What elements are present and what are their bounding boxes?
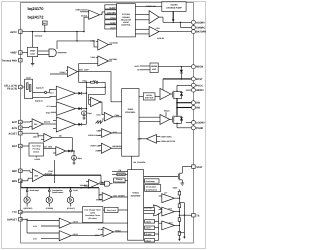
ramp waveform symbol <box>96 121 103 124</box>
current source termination qualification branch <box>46 188 64 210</box>
wire CELL to MUX <box>22 86 24 88</box>
svg-text:(10h): (10h) <box>90 211 95 214</box>
wire discharge box stub <box>144 180 145 182</box>
svg-text:SYSTEM: SYSTEM <box>122 13 130 16</box>
block VREF LDO <box>28 47 38 56</box>
svg-text:ICT,: ICT, <box>47 105 51 108</box>
clamp 24V <box>43 21 48 32</box>
svg-text:VREF: VREF <box>173 187 179 190</box>
block termination qualification <box>145 185 161 192</box>
svg-text:ACOV: ACOV <box>145 220 151 223</box>
comparator LTF <box>159 191 180 202</box>
wire BTST rail <box>163 78 191 89</box>
block level shifter <box>143 93 155 100</box>
wire TTC to timer <box>22 211 82 213</box>
comparator AC overvoltage 1.6V <box>33 218 128 228</box>
svg-text:CONTROL: CONTROL <box>121 24 131 27</box>
svg-text:CONTROL: CONTROL <box>125 111 136 114</box>
svg-text:Discharge: Discharge <box>146 180 155 183</box>
amp EAI buffer <box>89 94 105 114</box>
svg-text:SRP: SRP <box>12 170 17 173</box>
resistor chain R4 <box>178 232 180 239</box>
svg-text:EAI: EAI <box>93 79 97 82</box>
pin Thermal PAD <box>1 58 22 62</box>
wire SRN bus <box>21 181 102 200</box>
label VREF pullup <box>173 187 180 192</box>
svg-text:I(TERM): I(TERM) <box>46 207 54 210</box>
wire STAT gate <box>144 176 177 178</box>
svg-text:ACOV: ACOV <box>73 220 79 223</box>
ground under VREF LDO <box>31 57 35 66</box>
block system power selector logic control <box>116 4 135 37</box>
comparator HTF <box>159 207 180 216</box>
pin ACP <box>12 120 22 124</box>
svg-text:SLEEP: SLEEP <box>109 6 116 9</box>
block discharge <box>145 179 159 183</box>
svg-text:LEVEL: LEVEL <box>146 94 153 97</box>
svg-text:LOWV: LOWV <box>35 158 41 161</box>
pin LODRV <box>191 121 205 125</box>
block fast-chg pre-chg detect <box>29 143 44 156</box>
pin SW a <box>191 101 200 105</box>
svg-text:bq24170: bq24170 <box>36 87 44 90</box>
svg-text:POWER: POWER <box>122 16 130 19</box>
svg-text:STATE: STATE <box>132 192 139 195</box>
svg-text:30µA: 30µA <box>87 112 92 115</box>
svg-text:6: 6 <box>20 127 21 130</box>
compensation rail FBO/EAI <box>82 79 105 83</box>
gate SUSPEND or <box>144 205 167 216</box>
signal box ACOV top <box>105 20 117 25</box>
signal box UVLO <box>145 239 155 243</box>
block cell MUX <box>25 77 33 99</box>
IC boundary <box>21 3 194 244</box>
svg-text:SW: SW <box>196 102 201 105</box>
pin OVPSET <box>7 218 22 222</box>
wire VREF pin to LDO <box>22 52 27 54</box>
diode termination feed <box>66 150 74 153</box>
svg-text:GND: GND <box>46 112 51 115</box>
svg-text:ACN: ACN <box>156 27 161 30</box>
capacitor comp series <box>94 81 99 84</box>
svg-text:ACN: ACN <box>12 127 18 130</box>
label LOWV <box>35 156 41 161</box>
svg-text:TS: TS <box>196 215 200 218</box>
wire CMSRC <box>180 22 192 28</box>
svg-text:Fault: Fault <box>73 189 78 192</box>
resistor chain R3 <box>178 218 180 232</box>
svg-text:Detect: Detect <box>33 151 39 154</box>
svg-text:BAT_REG: BAT_REG <box>44 146 53 149</box>
wire ICHG rail <box>44 160 105 183</box>
svg-text:VREF: VREF <box>30 50 36 53</box>
svg-text:Thermal PAD: Thermal PAD <box>1 59 17 62</box>
svg-text:SELECTOR: SELECTOR <box>121 18 132 21</box>
svg-text:REGN: REGN <box>151 65 158 68</box>
block PWM CONTROL <box>122 89 139 157</box>
wire TS ladder right <box>179 203 185 239</box>
svg-text:ACN-SRN: ACN-SRN <box>107 11 116 14</box>
comparator DISCHG <box>80 180 104 189</box>
svg-text:CMSRC: CMSRC <box>196 27 205 30</box>
svg-text:SW: SW <box>196 107 201 110</box>
block ACDRV charge pump <box>162 2 186 12</box>
wire BAT to detect block <box>22 145 29 147</box>
diode current loop 1 <box>75 107 86 110</box>
svg-text:Pre-Chg: Pre-Chg <box>33 148 41 151</box>
wire charge pump input <box>135 6 161 8</box>
svg-text:STAT: STAT <box>196 166 203 169</box>
svg-text:5: 5 <box>20 121 21 124</box>
svg-text:2: 2 <box>20 51 21 54</box>
pin AVCC <box>10 30 22 34</box>
wire charge pump output arrow <box>172 11 175 23</box>
wire LODRV stub <box>186 122 192 124</box>
svg-text:EN_CHARGE: EN_CHARGE <box>134 161 147 164</box>
svg-text:SLEEP: SLEEP <box>145 233 152 236</box>
svg-text:VSRN: VSRN <box>96 199 102 202</box>
signal box ACUV top <box>105 25 117 30</box>
wire EN_CHARGE <box>132 156 147 169</box>
svg-text:BTST: BTST <box>196 78 203 81</box>
gate charge termination AND <box>100 181 113 186</box>
pin PVCC <box>191 83 203 87</box>
svg-text:ACSET: ACSET <box>9 132 18 135</box>
driver high side <box>139 89 172 100</box>
svg-text:HIDRV: HIDRV <box>196 89 204 92</box>
block charge termination <box>114 178 126 184</box>
REGN LDO inputs <box>134 65 150 72</box>
svg-text:BATRMV: BATRMV <box>109 58 118 61</box>
svg-text:BAT_OVP: BAT_OVP <box>79 68 89 71</box>
pin REGN <box>191 65 203 69</box>
pin HIDRV <box>191 88 204 92</box>
pin SW b <box>191 106 200 110</box>
comparator AC undervoltage 2.5V <box>33 231 100 241</box>
svg-text:12: 12 <box>20 218 22 221</box>
wire timer to time fault to state machine <box>103 209 128 211</box>
svg-text:ACP: ACP <box>12 121 18 124</box>
svg-text:LDO: LDO <box>152 68 157 71</box>
block charge timers <box>83 207 103 223</box>
driver BATDRV <box>135 27 191 41</box>
block REGN LDO <box>150 63 158 73</box>
diode REGN to BTST <box>180 67 183 79</box>
block time fault <box>105 207 119 212</box>
svg-text:LOGIC: LOGIC <box>123 21 130 24</box>
svg-text:UVLO: UVLO <box>110 16 116 19</box>
pin CELL/FB <box>4 85 22 91</box>
svg-text:BATDRV: BATDRV <box>196 31 207 34</box>
svg-text:ACN-8V: ACN-8V <box>157 37 165 40</box>
svg-text:2.05V: 2.05V <box>90 56 96 59</box>
pin SRP <box>12 169 22 173</box>
pin PGND <box>191 126 203 130</box>
pin ACDRV <box>191 20 205 24</box>
comparator TSHUT <box>94 227 127 237</box>
svg-text:bq24172: bq24172 <box>28 15 45 20</box>
pin VREF <box>10 51 22 55</box>
svg-text:PWM: PWM <box>128 108 133 111</box>
signal box ACUV <box>145 226 155 230</box>
svg-text:20xIAC: 20xIAC <box>44 121 51 124</box>
svg-text:Fast Charge Timer: Fast Charge Timer <box>84 209 101 212</box>
wire termination qualification stub <box>144 187 145 189</box>
wire HIDRV stub <box>186 89 192 91</box>
svg-text:PVCC: PVCC <box>196 84 203 87</box>
ground chain arrow <box>178 238 180 241</box>
signal box ACOV <box>145 220 155 224</box>
comparator BAT_SHORT <box>96 193 128 202</box>
svg-text:ACDRV: ACDRV <box>196 21 205 24</box>
svg-text:Time Fault: Time Fault <box>106 209 116 212</box>
transistor HSFET <box>172 85 183 102</box>
comparator BATRMV <box>79 56 118 82</box>
svg-text:bq24170: bq24170 <box>28 6 45 11</box>
comparator SLEEP <box>75 9 104 20</box>
comparator ACOC 100mV <box>22 133 72 151</box>
wire RCHRG to state machine <box>112 173 128 175</box>
current source fault branch <box>67 188 78 210</box>
pin TTC <box>12 210 22 214</box>
current source discharge branch <box>24 188 39 210</box>
svg-text:1: 1 <box>20 31 21 34</box>
resistor chain R1 <box>178 191 180 204</box>
resistor comp series <box>91 81 95 83</box>
pin TS <box>192 213 200 217</box>
svg-text:100mV: 100mV <box>33 136 40 139</box>
pin BATDRV <box>191 30 206 34</box>
pin ACN <box>12 126 23 130</box>
wire BAT_RECHRG <box>44 146 76 156</box>
diode current loop 2 <box>75 123 86 126</box>
block STATE MACHINE <box>128 170 144 241</box>
pin STAT <box>192 165 203 169</box>
svg-text:REGN: REGN <box>164 110 170 113</box>
svg-text:8: 8 <box>20 145 21 148</box>
svg-text:ICHG: ICHG <box>48 170 53 173</box>
svg-text:OVPSET: OVPSET <box>7 219 18 222</box>
wire STAT drain to pin <box>182 166 191 168</box>
transistor LSFET <box>172 115 183 128</box>
signal box SLEEP top <box>105 5 117 10</box>
current source 30uA <box>82 111 93 119</box>
svg-text:AVCC: AVCC <box>134 65 140 68</box>
pin BTST <box>191 77 203 81</box>
pin BAT <box>12 144 22 148</box>
node EAI vertical <box>86 82 88 124</box>
pin CMSRC <box>191 26 205 30</box>
svg-text:ACUV: ACUV <box>110 26 116 29</box>
resistor chain R2 <box>178 204 180 218</box>
svg-text:9: 9 <box>20 170 21 173</box>
svg-text:LODRV: LODRV <box>196 122 205 125</box>
svg-text:PWM: PWM <box>115 114 120 117</box>
comparator BAT_OVP <box>50 67 122 102</box>
amp EAO to PWM <box>97 112 122 121</box>
signal box SLEEP <box>145 232 155 236</box>
svg-text:CHARGE PUMP: CHARGE PUMP <box>166 7 182 10</box>
svg-text:7: 7 <box>20 132 21 135</box>
svg-text:VSRN+100mV: VSRN+100mV <box>75 9 88 12</box>
pin SRN <box>12 179 22 183</box>
comparator ACGOOD <box>57 39 119 50</box>
comp network right leg <box>88 82 106 94</box>
svg-text:AVCC: AVCC <box>10 31 17 34</box>
svg-text:REGN: REGN <box>196 66 203 69</box>
driver ACDRV <box>135 5 191 24</box>
svg-text:REFRESH: REFRESH <box>112 145 122 148</box>
svg-text:TTC: TTC <box>12 211 17 214</box>
svg-text:UVLO: UVLO <box>145 239 151 242</box>
svg-text:MUX: MUX <box>26 77 31 80</box>
current source termination 40uA <box>72 151 83 164</box>
svg-text:ACDRV: ACDRV <box>170 4 178 7</box>
svg-text:Qualification: Qualification <box>146 188 158 191</box>
svg-text:SHIFTER: SHIFTER <box>145 97 154 100</box>
svg-text:MACHINE: MACHINE <box>131 195 141 198</box>
svg-text:11: 11 <box>20 211 22 214</box>
wire REGN output <box>158 66 191 67</box>
svg-text:ACUV: ACUV <box>73 233 79 236</box>
amp voltage loop <box>50 86 76 100</box>
svg-text:V(AVCC): V(AVCC) <box>35 35 43 38</box>
pin ACSET <box>9 131 23 135</box>
svg-text:Fast Chg/: Fast Chg/ <box>32 145 41 148</box>
svg-text:EAO: EAO <box>97 114 102 117</box>
driver low side <box>139 112 172 124</box>
svg-text:I(DSCHG): I(DSCHG) <box>24 207 33 210</box>
svg-text:Qualification: Qualification <box>52 191 64 194</box>
amp current loop 2 <box>53 117 75 132</box>
svg-text:I(FAULT): I(FAULT) <box>67 207 75 210</box>
svg-text:ACOV: ACOV <box>110 21 116 24</box>
comparator TCO <box>159 221 180 230</box>
wire PVCC <box>177 84 191 86</box>
svg-text:FB (172): FB (172) <box>7 88 17 91</box>
svg-text:ACUV: ACUV <box>145 227 151 230</box>
comparator REFRESH <box>90 143 122 153</box>
svg-text:ACGOOD: ACGOOD <box>109 41 118 44</box>
amp SRP/SRN 20x sense <box>22 169 53 182</box>
svg-text:Discharge: Discharge <box>30 189 39 192</box>
wire OVPSET feed <box>22 219 59 233</box>
svg-text:VREF: VREF <box>10 52 17 55</box>
signal box UVLO top <box>105 15 117 20</box>
wire MUX out bq24170 <box>33 87 53 94</box>
wire signal boxes collector <box>155 213 159 240</box>
svg-text:LDO: LDO <box>30 53 35 56</box>
svg-text:RCHRG: RCHRG <box>118 173 125 176</box>
block RCHRG <box>117 173 125 176</box>
svg-text:VSRN-VBTST/20: VSRN-VBTST/20 <box>161 140 176 143</box>
comparator UCP <box>88 129 122 138</box>
wire MUX out bq24172 <box>33 97 53 103</box>
svg-text:20X: 20X <box>35 174 39 177</box>
svg-text:3: 3 <box>20 59 21 62</box>
amp current loop 1 <box>46 102 76 116</box>
svg-text:Termination: Termination <box>114 181 126 184</box>
wire SW node <box>176 99 191 115</box>
wire PGND <box>177 127 191 129</box>
svg-text:(30 mins): (30 mins) <box>89 217 98 220</box>
svg-text:BAT: BAT <box>12 145 17 148</box>
svg-text:40µA: 40µA <box>77 157 82 160</box>
svg-text:SRN: SRN <box>12 180 17 183</box>
wire charge termination to state machine <box>125 179 128 181</box>
signal box ACN-SRN <box>105 10 117 15</box>
svg-text:VSRP+100mV: VSRP+100mV <box>88 134 101 137</box>
svg-text:PGND: PGND <box>196 127 203 130</box>
wire TS tap <box>179 215 191 216</box>
transistor STAT open drain <box>177 167 184 186</box>
svg-text:VDisSET: VDisSET <box>80 184 89 187</box>
svg-text:Precharge Timer: Precharge Timer <box>85 214 100 217</box>
svg-text:VSRP-VSRN: VSRP-VSRN <box>161 135 173 138</box>
wire AVCC rail <box>22 17 84 47</box>
gate UVLO detect <box>38 49 67 57</box>
amp ACP/ACN 20x <box>22 119 56 130</box>
svg-text:bq24172: bq24172 <box>35 100 43 103</box>
comparator OCP <box>138 135 176 144</box>
wire CE <box>112 169 128 172</box>
svg-text:Termination: Termination <box>146 186 158 189</box>
diode voltage loop <box>75 92 86 95</box>
